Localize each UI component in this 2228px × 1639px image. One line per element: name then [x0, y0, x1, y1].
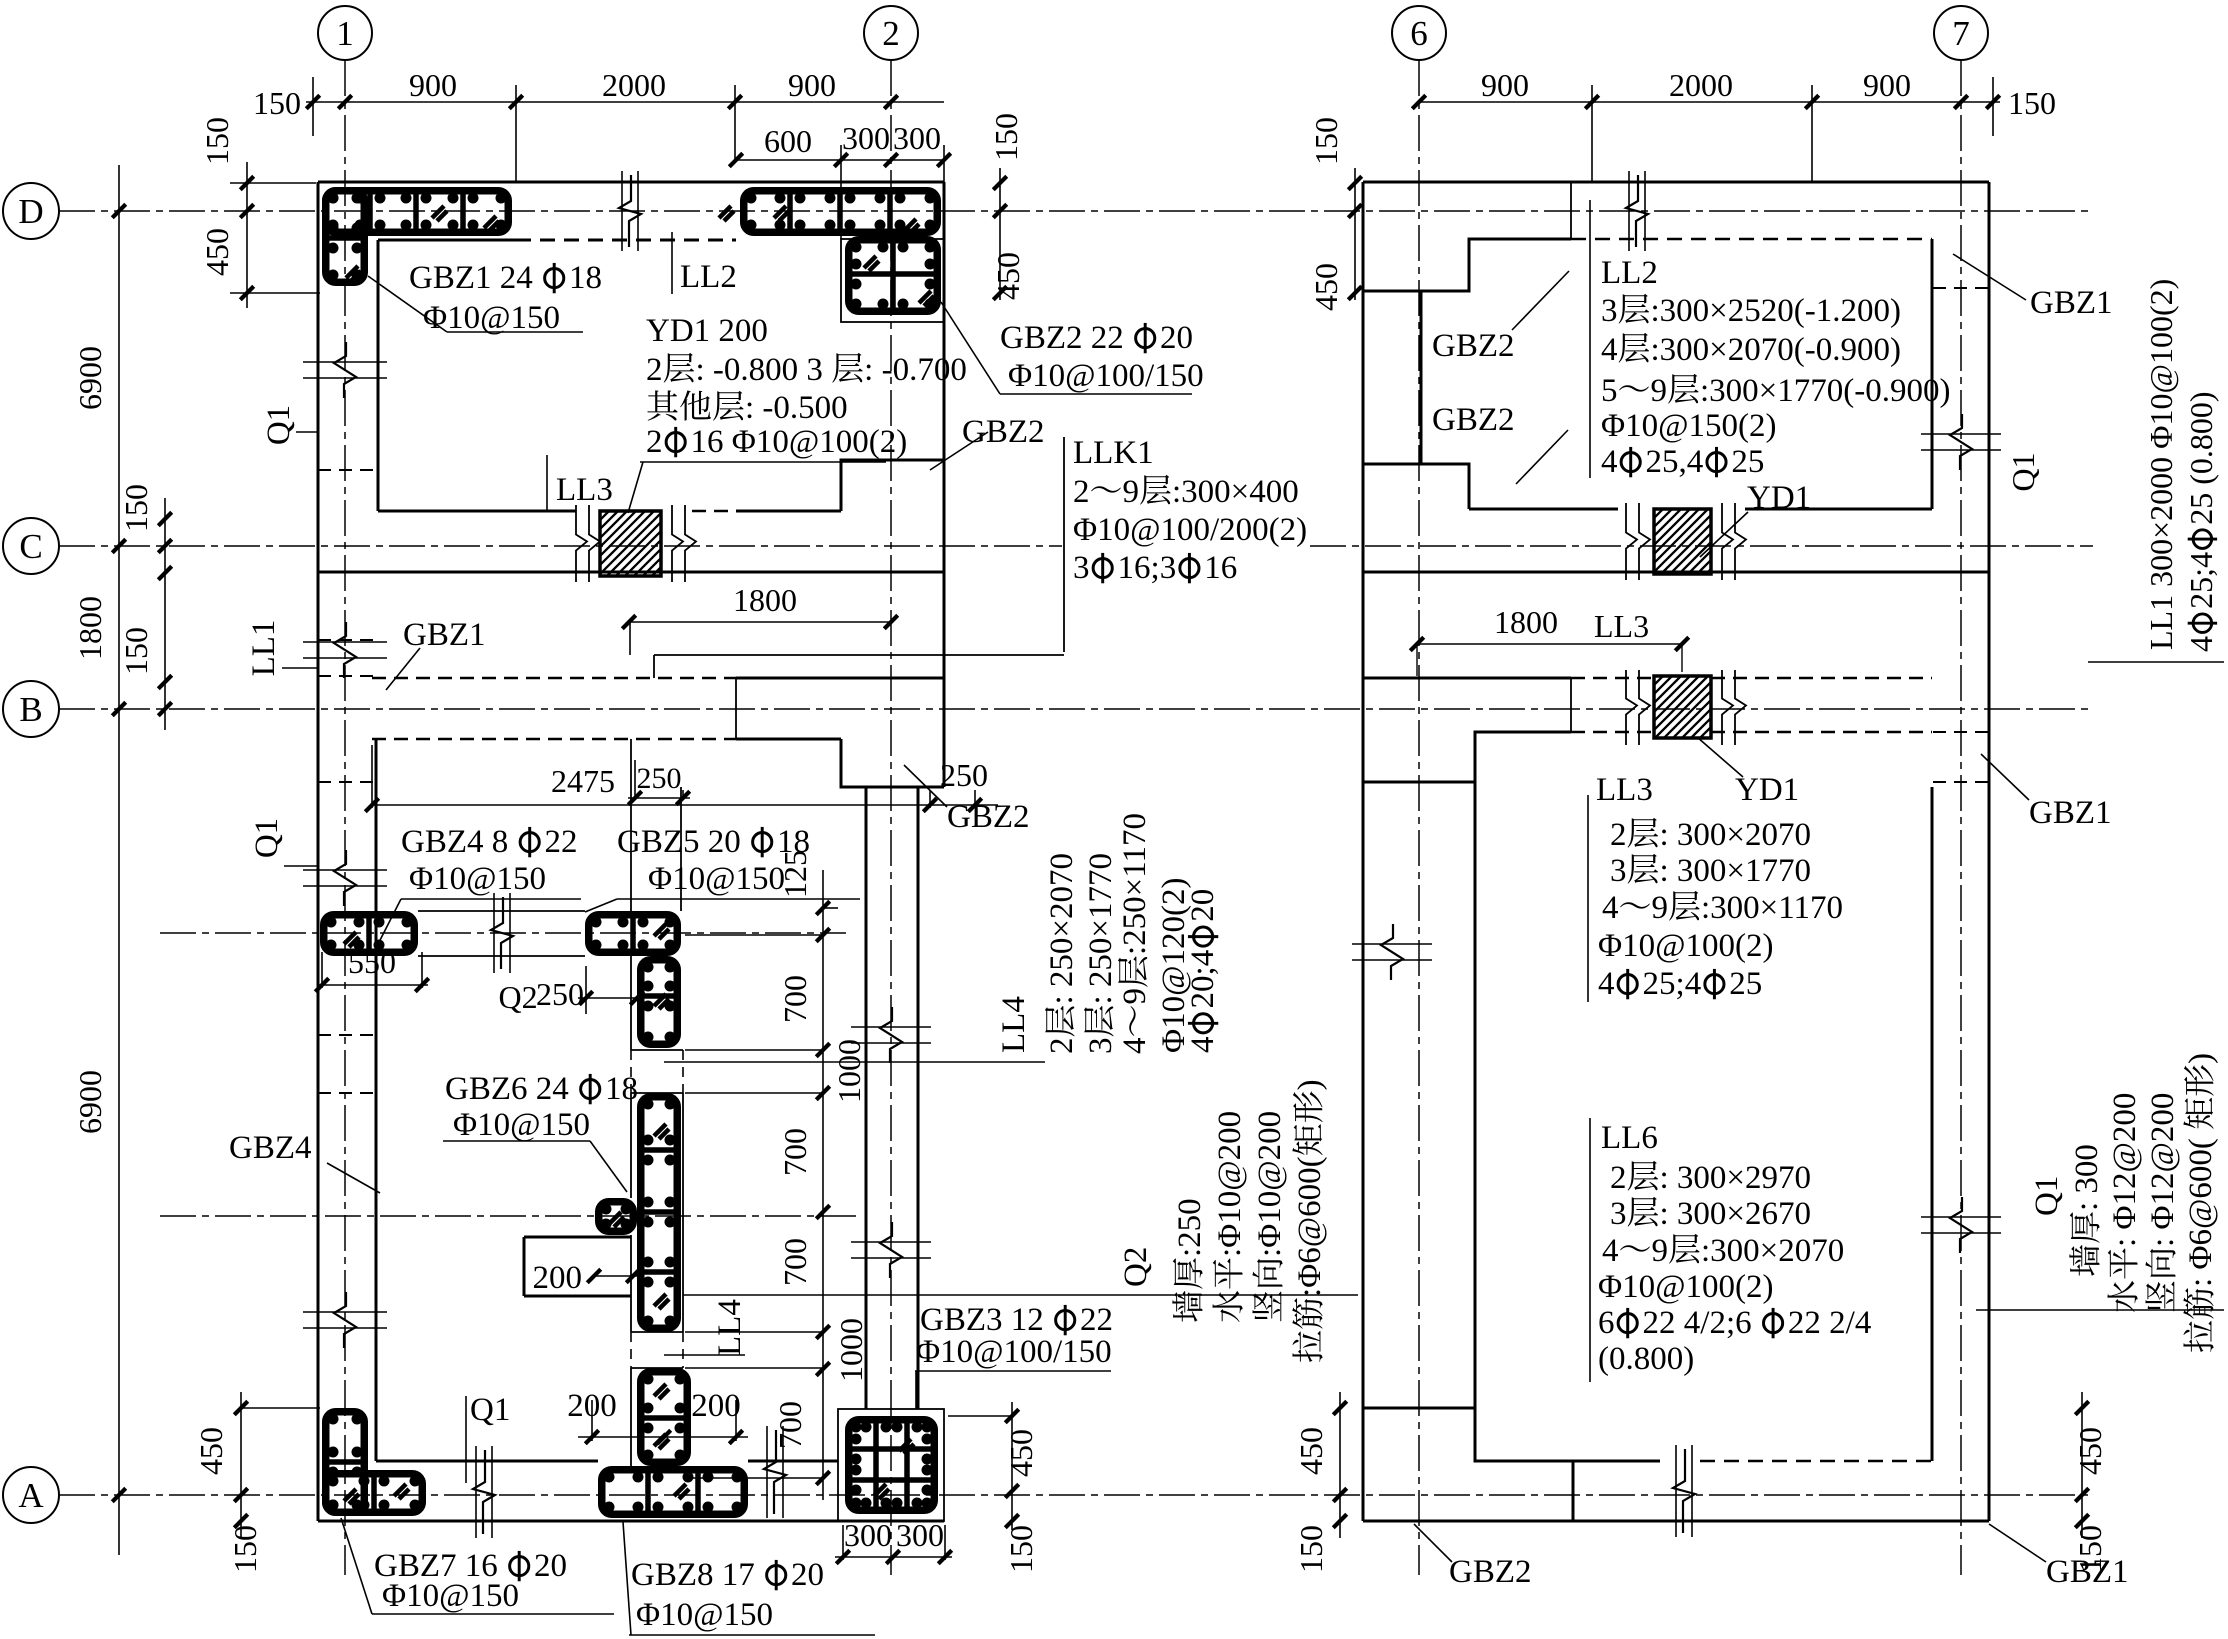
svg-text:2: 2: [1073, 474, 1090, 510]
svg-text:LL1: LL1: [246, 620, 282, 677]
svg-text:Φ10@150: Φ10@150: [453, 1107, 590, 1143]
svg-text:Φ10@150: Φ10@150: [382, 1578, 519, 1614]
svg-text:Φ10@100/150: Φ10@100/150: [916, 1334, 1112, 1370]
svg-text:GBZ3 12: GBZ3 12: [920, 1302, 1044, 1338]
svg-text:Q1: Q1: [2029, 1176, 2065, 1216]
svg-text:: 250×2070: : 250×2070: [1044, 853, 1080, 1005]
svg-text:LL2: LL2: [680, 259, 737, 295]
svg-text:GBZ1: GBZ1: [2030, 285, 2113, 321]
svg-text:LL4: LL4: [712, 1299, 748, 1356]
svg-text:GBZ4 8: GBZ4 8: [401, 824, 508, 860]
svg-text:1000: 1000: [831, 1039, 867, 1103]
svg-text:2: 2: [882, 14, 900, 53]
svg-text:6900: 6900: [72, 346, 108, 410]
svg-text:900: 900: [788, 67, 836, 103]
svg-text:2: 2: [646, 352, 663, 388]
svg-text:25: 25: [1731, 444, 1764, 480]
svg-text:450: 450: [1003, 1429, 1039, 1477]
svg-text:Q1: Q1: [2005, 452, 2041, 491]
svg-text:Q1: Q1: [470, 1392, 510, 1428]
svg-text:: Φ12@200: : Φ12@200: [2107, 1093, 2143, 1247]
svg-text:250: 250: [637, 762, 682, 795]
svg-text:Φ10@150: Φ10@150: [636, 1597, 773, 1633]
svg-text:25;4: 25;4: [1643, 966, 1702, 1002]
svg-text:Φ10@100/200(2): Φ10@100/200(2): [1073, 512, 1307, 548]
svg-text:D: D: [18, 192, 43, 231]
svg-text:5: 5: [1601, 373, 1618, 409]
svg-text::300×1770(-0.900): :300×1770(-0.900): [1700, 373, 1951, 409]
svg-text:6900: 6900: [72, 1070, 108, 1134]
svg-text:(0.800): (0.800): [1598, 1341, 1694, 1377]
svg-text:4: 4: [1602, 1233, 1619, 1269]
svg-text:: -0.500: : -0.500: [745, 390, 848, 426]
svg-text::300×1170: :300×1170: [1701, 890, 1843, 926]
svg-text:2475: 2475: [551, 763, 615, 799]
svg-text:16;3: 16;3: [1118, 550, 1177, 586]
svg-text:450: 450: [1308, 263, 1344, 311]
svg-text:A: A: [18, 1476, 44, 1515]
svg-text:: 300×2970: : 300×2970: [1660, 1160, 1812, 1196]
svg-text:GBZ2: GBZ2: [1449, 1554, 1532, 1590]
svg-text:LL4: LL4: [996, 996, 1032, 1053]
svg-text:22: 22: [545, 824, 578, 860]
svg-text:GBZ8 17: GBZ8 17: [631, 1557, 755, 1593]
svg-text::250×1170: :250×1170: [1117, 813, 1153, 955]
svg-text:2000: 2000: [1669, 67, 1733, 103]
svg-text:Q1: Q1: [261, 405, 297, 445]
svg-text:16 Φ10@100(2): 16 Φ10@100(2): [691, 424, 908, 460]
svg-text:LL2: LL2: [1601, 255, 1658, 291]
svg-text:GBZ2 22: GBZ2 22: [1000, 320, 1124, 356]
svg-text:GBZ2: GBZ2: [962, 414, 1045, 450]
svg-text:18: 18: [569, 260, 602, 296]
svg-text:LLK1: LLK1: [1073, 435, 1154, 471]
svg-text:700: 700: [777, 975, 813, 1023]
svg-text:9: 9: [1652, 890, 1669, 926]
svg-text:3: 3: [1073, 550, 1090, 586]
svg-text:150: 150: [253, 85, 301, 121]
svg-text:3: 3: [1083, 1038, 1119, 1055]
svg-text:GBZ5 20: GBZ5 20: [617, 824, 741, 860]
svg-text:900: 900: [1863, 67, 1911, 103]
svg-text:): ): [2183, 1053, 2219, 1064]
svg-text:6: 6: [1410, 14, 1428, 53]
svg-text:3: 3: [1601, 293, 1618, 329]
svg-text:20: 20: [1185, 889, 1221, 922]
svg-text:600: 600: [764, 123, 812, 159]
svg-text::Φ6@600(: :Φ6@600(: [1292, 1156, 1328, 1297]
svg-text:450: 450: [1293, 1427, 1329, 1475]
svg-text:450: 450: [990, 252, 1026, 300]
svg-text:150: 150: [988, 113, 1024, 161]
svg-text:Q2: Q2: [498, 979, 537, 1015]
svg-text:GBZ2: GBZ2: [1432, 402, 1515, 438]
svg-text:7: 7: [1952, 14, 1970, 53]
svg-text:: Φ6@600(: : Φ6@600(: [2183, 1138, 2219, 1287]
svg-text:4: 4: [1117, 1038, 1153, 1055]
svg-text:150: 150: [2008, 85, 2056, 121]
svg-text:: 300×2670: : 300×2670: [1660, 1196, 1812, 1232]
svg-text:Φ10@150: Φ10@150: [423, 300, 560, 336]
svg-text:GBZ2: GBZ2: [947, 799, 1030, 835]
svg-text:1000: 1000: [833, 1318, 869, 1382]
svg-text:2: 2: [646, 424, 663, 460]
svg-text:200: 200: [533, 1260, 583, 1296]
svg-text:200: 200: [691, 1388, 741, 1424]
svg-text:150: 150: [227, 1525, 263, 1573]
svg-text:Φ10@100(2): Φ10@100(2): [1598, 1269, 1774, 1305]
svg-text:GBZ1: GBZ1: [403, 617, 486, 653]
svg-text:25 (0.800): 25 (0.800): [2183, 391, 2219, 524]
svg-text:22: 22: [1080, 1302, 1113, 1338]
svg-text:GBZ2: GBZ2: [1432, 328, 1515, 364]
svg-text:9: 9: [1117, 988, 1153, 1005]
svg-text:YD1: YD1: [1735, 772, 1799, 808]
svg-text:4: 4: [1601, 332, 1618, 368]
svg-text:LL3: LL3: [556, 472, 613, 508]
svg-text:250: 250: [536, 976, 584, 1012]
svg-text:1800: 1800: [733, 582, 797, 618]
svg-text:9: 9: [1123, 474, 1140, 510]
svg-text:20: 20: [534, 1548, 567, 1584]
svg-text:9: 9: [1652, 1233, 1669, 1269]
svg-text:: -0.800 3: : -0.800 3: [696, 352, 823, 388]
svg-text:300: 300: [842, 120, 890, 156]
svg-text:150: 150: [118, 484, 154, 532]
svg-text:900: 900: [1481, 67, 1529, 103]
svg-text:18: 18: [777, 824, 810, 860]
svg-text::Φ10@200: :Φ10@200: [1212, 1111, 1248, 1257]
svg-text::300×400: :300×400: [1172, 474, 1299, 510]
svg-text:20: 20: [1160, 320, 1193, 356]
svg-text:25,4: 25,4: [1646, 444, 1704, 480]
svg-text:Φ10@100/150: Φ10@100/150: [1008, 358, 1204, 394]
svg-text::Φ10@200: :Φ10@200: [1252, 1111, 1288, 1257]
svg-text::300×2070(-0.900): :300×2070(-0.900): [1651, 332, 1902, 368]
svg-text:GBZ1: GBZ1: [2029, 795, 2112, 831]
svg-text:1: 1: [336, 14, 354, 53]
svg-text:450: 450: [193, 1427, 229, 1475]
svg-text:700: 700: [777, 1238, 813, 1286]
svg-text:): ): [1292, 1079, 1328, 1090]
svg-text:6: 6: [1598, 1305, 1615, 1341]
svg-text:900: 900: [409, 67, 457, 103]
svg-text:C: C: [19, 527, 42, 566]
svg-text::300×2070: :300×2070: [1701, 1233, 1844, 1269]
svg-text:250: 250: [940, 757, 988, 793]
svg-text:Q2: Q2: [1118, 1247, 1154, 1287]
svg-text:LL6: LL6: [1601, 1120, 1658, 1156]
svg-text:20;4: 20;4: [1185, 950, 1221, 1009]
svg-text:YD1: YD1: [1747, 480, 1811, 516]
svg-text:25: 25: [1729, 966, 1762, 1002]
svg-text:4: 4: [2183, 636, 2219, 652]
svg-text:: 300×1770: : 300×1770: [1660, 853, 1812, 889]
svg-text:: -0.700: : -0.700: [864, 352, 967, 388]
svg-text:4: 4: [1185, 1037, 1221, 1054]
svg-text:150: 150: [1003, 1525, 1039, 1573]
svg-text:Φ10@100(2): Φ10@100(2): [1598, 928, 1774, 964]
svg-text:18: 18: [605, 1071, 638, 1107]
svg-text:: Φ12@200: : Φ12@200: [2145, 1093, 2181, 1247]
svg-text:20: 20: [791, 1557, 824, 1593]
svg-text:450: 450: [2072, 1427, 2108, 1475]
svg-text:Φ10@150(2): Φ10@150(2): [1601, 408, 1777, 444]
svg-text:GBZ1 24: GBZ1 24: [409, 260, 533, 296]
svg-text:22 4/2;6: 22 4/2;6: [1643, 1305, 1752, 1341]
svg-text:1800: 1800: [1494, 604, 1558, 640]
svg-text:150: 150: [199, 117, 235, 165]
svg-text:: 300×2070: : 300×2070: [1660, 817, 1812, 853]
svg-text:1800: 1800: [72, 596, 108, 660]
svg-text:GBZ6 24: GBZ6 24: [445, 1071, 569, 1107]
svg-text:300: 300: [893, 120, 941, 156]
svg-text:4: 4: [1598, 966, 1615, 1002]
svg-text:: 300: : 300: [2069, 1144, 2105, 1211]
svg-text:LL3: LL3: [1596, 772, 1653, 808]
svg-text:150: 150: [118, 627, 154, 675]
svg-text:YD1 200: YD1 200: [646, 313, 768, 349]
svg-text:2: 2: [1044, 1038, 1080, 1055]
svg-text:2000: 2000: [602, 67, 666, 103]
svg-text:3: 3: [1610, 853, 1627, 889]
svg-text:GBZ1: GBZ1: [2046, 1554, 2129, 1590]
svg-text:2: 2: [1610, 817, 1627, 853]
svg-text:: 250×1770: : 250×1770: [1083, 853, 1119, 1005]
svg-text:LL1 300×2000 Φ10@100(2): LL1 300×2000 Φ10@100(2): [2143, 279, 2179, 650]
svg-text:16: 16: [1204, 550, 1237, 586]
svg-text:150: 150: [1308, 117, 1344, 165]
svg-text:700: 700: [772, 1401, 808, 1449]
svg-text:9: 9: [1651, 373, 1668, 409]
svg-text:300: 300: [844, 1517, 892, 1553]
svg-text:LL3: LL3: [1594, 608, 1649, 644]
svg-text::300×2520(-1.200): :300×2520(-1.200): [1651, 293, 1902, 329]
svg-text:25;4: 25;4: [2183, 552, 2219, 609]
svg-text:300: 300: [896, 1517, 944, 1553]
svg-text:2: 2: [1610, 1160, 1627, 1196]
svg-text:22 2/4: 22 2/4: [1788, 1305, 1871, 1341]
svg-text:3: 3: [1610, 1196, 1627, 1232]
svg-text:4: 4: [1601, 444, 1618, 480]
svg-text:450: 450: [199, 228, 235, 276]
svg-text:700: 700: [777, 1128, 813, 1176]
svg-text:4: 4: [1602, 890, 1619, 926]
svg-text:GBZ4: GBZ4: [229, 1130, 312, 1166]
svg-text:B: B: [19, 690, 42, 729]
svg-text:Φ10@150: Φ10@150: [648, 861, 785, 897]
svg-text:Q1: Q1: [249, 818, 285, 858]
svg-text::250: :250: [1172, 1198, 1208, 1257]
svg-text:Φ10@150: Φ10@150: [409, 861, 546, 897]
svg-text:150: 150: [1293, 1525, 1329, 1573]
